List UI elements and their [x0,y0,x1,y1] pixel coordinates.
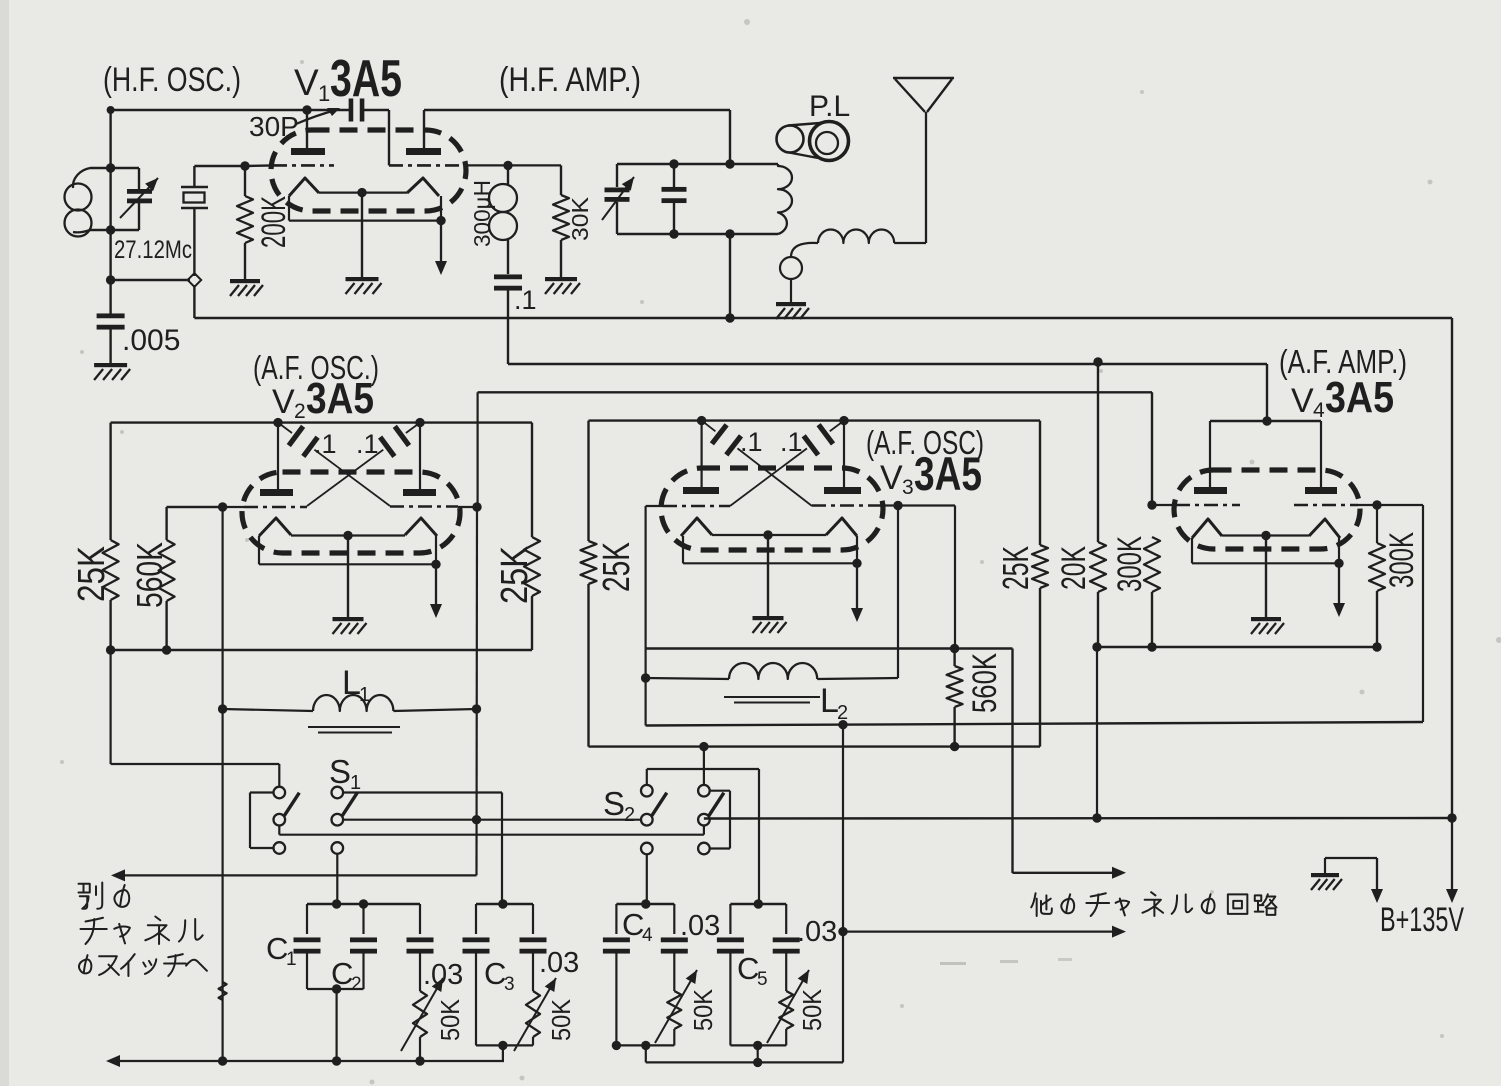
label .1 V2 left [314,429,337,459]
node amp tank bottom [725,229,734,238]
svg-text:.1: .1 [356,429,379,459]
label (A.F. OSC) V3 [866,424,984,461]
wire coupling out [508,364,1267,421]
label L2 [820,682,848,724]
svg-text:25K: 25K [995,546,1036,590]
arrow filament supply V2 [430,564,442,618]
capacitor amp fixed [662,159,687,238]
label .1 V3 left [740,427,763,457]
node S1 middleR tap [472,815,481,824]
svg-text:.03: .03 [423,959,463,991]
node 20K top [1093,357,1102,366]
tube V4 envelope [1174,470,1360,549]
wire plate V2b riser [419,423,421,489]
arrow 50K block2 [514,978,556,1051]
arrow filament supply V4 [1333,563,1345,617]
wire another channel switch [111,820,477,882]
wire V2 plate top [111,423,532,537]
arrow variable cap [120,178,158,218]
capacitor osc variable [111,168,152,230]
svg-text:1: 1 [359,684,370,706]
svg-text:.03: .03 [680,910,720,942]
tube V4 label [1291,373,1394,422]
svg-text:3A5: 3A5 [914,447,982,500]
wire grid riser x223 [222,507,224,1061]
resistor R 30K [553,165,569,277]
wire plate V2a riser [277,423,279,489]
wire plate V3b riser [843,421,845,487]
ground V2 filament [333,617,367,634]
wire V3 plate top [589,421,1041,545]
svg-text:(H.F. OSC.): (H.F. OSC.) [103,61,241,99]
wire V4 grid tie [1210,416,1321,487]
svg-text:V: V [272,383,295,421]
label 200K [255,196,293,248]
node other channel tap [838,927,847,936]
wire C3 bottom [476,1041,533,1062]
wire 20K to rail [1096,647,1098,818]
capacitor cross .1 right V3 [730,421,844,506]
node grid V4a [1147,500,1156,509]
svg-text:300K: 300K [1111,536,1149,592]
svg-text:50K: 50K [797,988,827,1031]
tube V1 envelope [271,130,466,211]
resistor R 300K left [1144,537,1160,647]
svg-text:S: S [603,785,625,822]
resistor R 25K left [103,423,119,650]
wire S1 topR out [343,793,502,905]
svg-text:1: 1 [350,772,361,794]
plate V4b [1305,487,1337,494]
ground V4 filament [1251,617,1284,634]
node S2 feed tap [699,742,708,751]
wire 560K grid elbow [167,506,223,508]
wire C5 bottom [730,1041,786,1063]
wire grid corner 560K [954,506,956,649]
inductor amp tank coil [778,164,792,234]
arrow 50K block3 [655,970,697,1043]
wire riser x477 [477,392,478,875]
switch S1 [274,787,358,854]
tube V2 envelope [242,472,460,553]
wire S2 right bracket [710,791,730,849]
plate V4a [1194,487,1227,494]
ground V1 filament [346,277,382,294]
svg-text:B+135V: B+135V [1380,901,1464,939]
capacitor C4 [603,904,630,1045]
block C5 top [730,899,786,908]
wire filament tie V3 [683,536,862,568]
ground pickup [776,302,809,319]
arrow other channel upper [1013,867,1127,879]
wire V3 filament center [712,530,826,616]
arrow 50K block4 [767,970,809,1043]
node L2 left [641,673,650,682]
label 50K block2 [546,998,576,1041]
node grid2 out [503,161,512,170]
label 300uH [469,180,495,247]
label 30K [567,196,593,241]
svg-text:3A5: 3A5 [1325,373,1394,422]
switch S2 [641,785,724,854]
svg-text:V: V [1291,382,1314,420]
node diamond junction [188,273,202,287]
ground .005 [94,363,130,380]
wire tank to rail [729,234,731,318]
capacitor .03 block4 [773,904,800,991]
node L1 right [472,704,481,713]
inductor osc tank coil [65,168,111,237]
capacitor cross .1 left V3 [702,421,812,506]
inductor 300uH [489,165,517,274]
filament V3b [826,518,857,536]
inductor L1 [223,695,477,733]
resistor 50K block2 [526,991,540,1045]
capacitor .1 coupling [494,274,522,364]
filament V1a [289,178,319,196]
lamp P.L [777,122,849,161]
ground 200K [230,279,263,296]
resistor R 300K right [1369,505,1385,647]
capacitor C3 [463,904,490,1045]
node V4 bus 300KR [1372,642,1381,651]
svg-text:2: 2 [624,804,635,826]
label S2 [603,785,635,826]
label 300K right [1383,532,1421,588]
label 20K [1055,546,1093,590]
label .005 [122,324,180,357]
svg-text:25K: 25K [596,542,638,592]
grid V1a dash line [273,164,334,167]
block C1 C2 top [307,899,420,908]
node rail corner [1447,813,1456,822]
wire filament tie V1 [289,196,446,225]
label C1 [266,931,297,970]
arrow other channel lower [843,926,1126,938]
node osc junction [106,275,115,284]
capacitor .03 block3 [661,904,688,991]
resistor 50K block4 [779,991,793,1045]
tube V1 label V1 3A5 [294,50,402,108]
resistor R 560K [159,507,175,650]
ground B minus [1311,858,1377,890]
node amp tank top [725,159,734,168]
wire S2 entry [703,747,705,785]
resistor 50K block3 [667,991,681,1045]
svg-text:3A5: 3A5 [330,50,402,108]
node V3 plate1 [697,416,706,425]
svg-text:1: 1 [286,949,297,970]
wire S1 left bracket [250,793,274,849]
capacitor cross .1 right V2 [307,423,420,506]
label .03 block4 [797,916,837,948]
wire V3 left grid drop [644,506,646,726]
label 50K block1 [435,998,465,1041]
wire C4 bottom [612,1041,675,1063]
label (A.F. AMP.) [1279,343,1407,380]
grid V4b line [1294,504,1423,507]
wire S2 middleR out [710,819,1452,820]
wire rail B+ top [194,318,1452,818]
grid V1b dash line [389,164,561,167]
wire V2grid to V4grid [478,392,1152,505]
node V2 plate1 [273,418,282,427]
svg-text:560K: 560K [129,542,170,608]
crystal 27.12Mc [181,166,208,276]
svg-text:.1: .1 [514,285,537,315]
wire S1 entry [111,650,280,787]
label L1 [342,664,370,706]
svg-text:2: 2 [294,400,306,423]
wire filament tie V2 [259,536,441,569]
arrow B+135V [1446,818,1458,903]
capacitor .03 block2 [520,904,547,991]
svg-text:27.12Mc: 27.12Mc [114,236,192,264]
wire S1 middleR out [343,819,641,821]
wire S2 top bracket [647,769,759,904]
capacitor cross .1 left V2 [278,423,390,506]
node rail x420 [415,1056,424,1065]
label .03 block2 [539,947,579,979]
inductor antenna pickup [780,230,926,303]
label C3 [484,956,515,995]
wire bus 648 [646,649,1013,874]
svg-text:20K: 20K [1055,546,1093,590]
node V4 bus 300KL [1147,642,1156,651]
grid V3a line [646,505,730,507]
svg-text:560K: 560K [966,653,1004,713]
label 25K right V3 [995,546,1036,590]
block C4 top [616,899,674,908]
label B+135V [1380,901,1464,939]
label C5 [737,951,768,990]
resistor R 25K right V3 [1032,545,1048,747]
node 560K top [950,644,959,653]
wire amp tank top [617,163,778,165]
wire C1C2 bottom [307,984,364,1061]
wire V2 cathode bus [111,649,532,651]
svg-text:3A5: 3A5 [306,374,374,423]
svg-text:4: 4 [642,925,653,946]
node rail x1097 [1092,813,1101,822]
capacitor C2 [350,904,377,989]
tube V3 envelope [661,468,883,550]
svg-text:4: 4 [1313,399,1325,422]
antenna [893,78,954,243]
wire plate V1b riser [424,110,730,164]
label 25K right V2 [494,546,536,604]
svg-text:P.L: P.L [809,90,850,123]
wire V4 bus [1097,646,1377,648]
wire kink artifact [219,982,227,1000]
node rail x223 [218,1056,227,1065]
node grid return tap [838,720,847,729]
plate V2b [403,489,436,496]
svg-text:.1: .1 [314,429,337,459]
label 300K left [1111,536,1149,592]
svg-text:30K: 30K [567,196,593,241]
block C3 top [476,899,533,908]
arrow filament supply V1 [435,221,447,275]
filament V2a [259,518,291,536]
node 560K bottom [950,742,959,751]
wire filament tie V4 [1192,538,1344,568]
label 27.12Mc [114,236,192,264]
wire S1 middleL drop [279,826,704,835]
wire crystal to rail [193,285,195,318]
capacitor C5 [717,904,744,1045]
wire grid1 feed [194,164,273,167]
wire V2 filament center [291,531,405,617]
label 560K [129,542,170,608]
svg-text:S: S [329,753,351,790]
svg-text:25K: 25K [71,546,113,602]
node bus 560K [162,645,171,654]
node tank bottom [106,225,115,234]
svg-text:300µH: 300µH [469,180,495,247]
plate V1a [291,148,325,155]
label .1 V3 right [780,427,803,457]
text other channel circuit [1031,892,1276,916]
resistor R 560K V3 [947,649,963,747]
arrow 50K block1 [401,978,443,1051]
label C2 [331,956,362,995]
filament V3a [681,518,712,536]
plate V1b [406,148,441,155]
node plate1 top [302,105,311,114]
grid V4a line [1152,504,1240,506]
svg-text:(H.F. AMP.): (H.F. AMP.) [499,61,641,99]
svg-text:V: V [880,459,903,497]
label 30P with arrow [249,108,340,142]
svg-text:25K: 25K [494,546,536,604]
wire 30P to grid2 [388,110,390,165]
capacitor 30P [349,99,365,122]
grid V3b line [812,504,955,507]
plate V2a [260,489,293,496]
grid V2b line [390,505,477,508]
node rail x336 [332,1056,341,1065]
node V3 plate2 [839,416,848,425]
arrow B minus [1371,858,1383,903]
label 50K block4 [797,988,827,1031]
ground V3 filament [753,616,787,633]
node grid V4b [1372,500,1381,509]
arrow amp varcap [602,177,634,220]
svg-text:.1: .1 [740,427,763,457]
node 200K top [240,161,249,170]
wire grid return 724 [646,722,1423,726]
label P.L [809,90,850,123]
resistor R 25K left V3 [581,541,597,747]
node L1 left [218,704,227,713]
filament V1b [407,178,439,196]
label (H.F. OSC.) [103,61,241,99]
inductor L2 [646,663,898,703]
text channeru (line2) [81,917,203,945]
label S1 [329,753,361,794]
text betsu-no (another channel line1) [79,883,130,909]
wire S2 bottomL drop [646,854,648,904]
text no-switch-e (line3) [79,954,207,976]
filament V4b [1309,519,1340,538]
label (A.F. OSC.) V2 [253,349,379,386]
svg-text:50K: 50K [688,988,718,1031]
wire top plate1 V1 [111,109,389,111]
tube V2 label [272,374,374,423]
svg-text:V: V [294,62,319,103]
label 25K left [71,546,113,602]
resistor R 20K [1090,362,1106,647]
label 25K left V3 [596,542,638,592]
node bus 25K [106,645,115,654]
ground 30K [545,277,580,294]
wire osc junction row [111,279,190,281]
tube V3 label [880,447,982,500]
svg-text:50K: 50K [435,998,465,1041]
node grid V3b [893,501,902,510]
wire filament center [319,188,407,277]
capacitor .005 [97,313,125,363]
svg-text:1: 1 [318,81,330,106]
label .03 block3 [680,910,720,942]
svg-text:.1: .1 [780,427,803,457]
wire bottom rail right [704,817,1452,820]
resistor R 25K right V2 [524,537,540,650]
wire S2 feed 746 [589,745,1041,747]
plate V3a [683,487,719,494]
wire grid2 drop x898 [897,506,899,679]
plate V3b [824,487,861,494]
label .03 block1 [423,959,463,991]
capacitor C1 [294,904,321,989]
node tank top [106,163,115,172]
node V2 plate2 [415,418,424,427]
label C4 [622,907,653,946]
wire S1 bottomR drop [336,854,338,904]
label 50K block3 [688,988,718,1031]
svg-text:3: 3 [902,476,914,499]
wire plate V3a riser [700,421,702,487]
wire V4 right grid loop [1422,505,1424,722]
svg-text:.03: .03 [539,947,579,979]
arrow filament supply V3 [851,563,863,622]
svg-text:.005: .005 [122,324,180,357]
node top left corner [107,106,115,114]
node V4 bus 20K [1092,642,1101,651]
label (H.F. AMP.) [499,61,641,99]
filament V4a [1192,519,1222,538]
wire V4 filament center [1222,531,1309,617]
capacitor amp variable [605,164,630,234]
svg-text:300K: 300K [1383,532,1421,588]
wire drop x843 [842,725,844,932]
resistor R 200K [237,166,253,279]
capacitor .03 block1 [407,904,434,991]
svg-text:.03: .03 [797,916,837,948]
filament V2b [405,518,437,536]
label 560K V3 [966,653,1004,713]
svg-text:5: 5 [757,969,768,990]
svg-text:2: 2 [351,974,362,995]
svg-text:50K: 50K [546,998,576,1041]
wire C4 C5 bottom bus [646,932,843,1068]
wire amp tank bottom [617,233,778,235]
resistor 50K block1 [413,991,427,1061]
wire left vertical [109,110,111,315]
wire plate V1a riser [306,110,308,148]
grid V2a line [167,506,307,508]
